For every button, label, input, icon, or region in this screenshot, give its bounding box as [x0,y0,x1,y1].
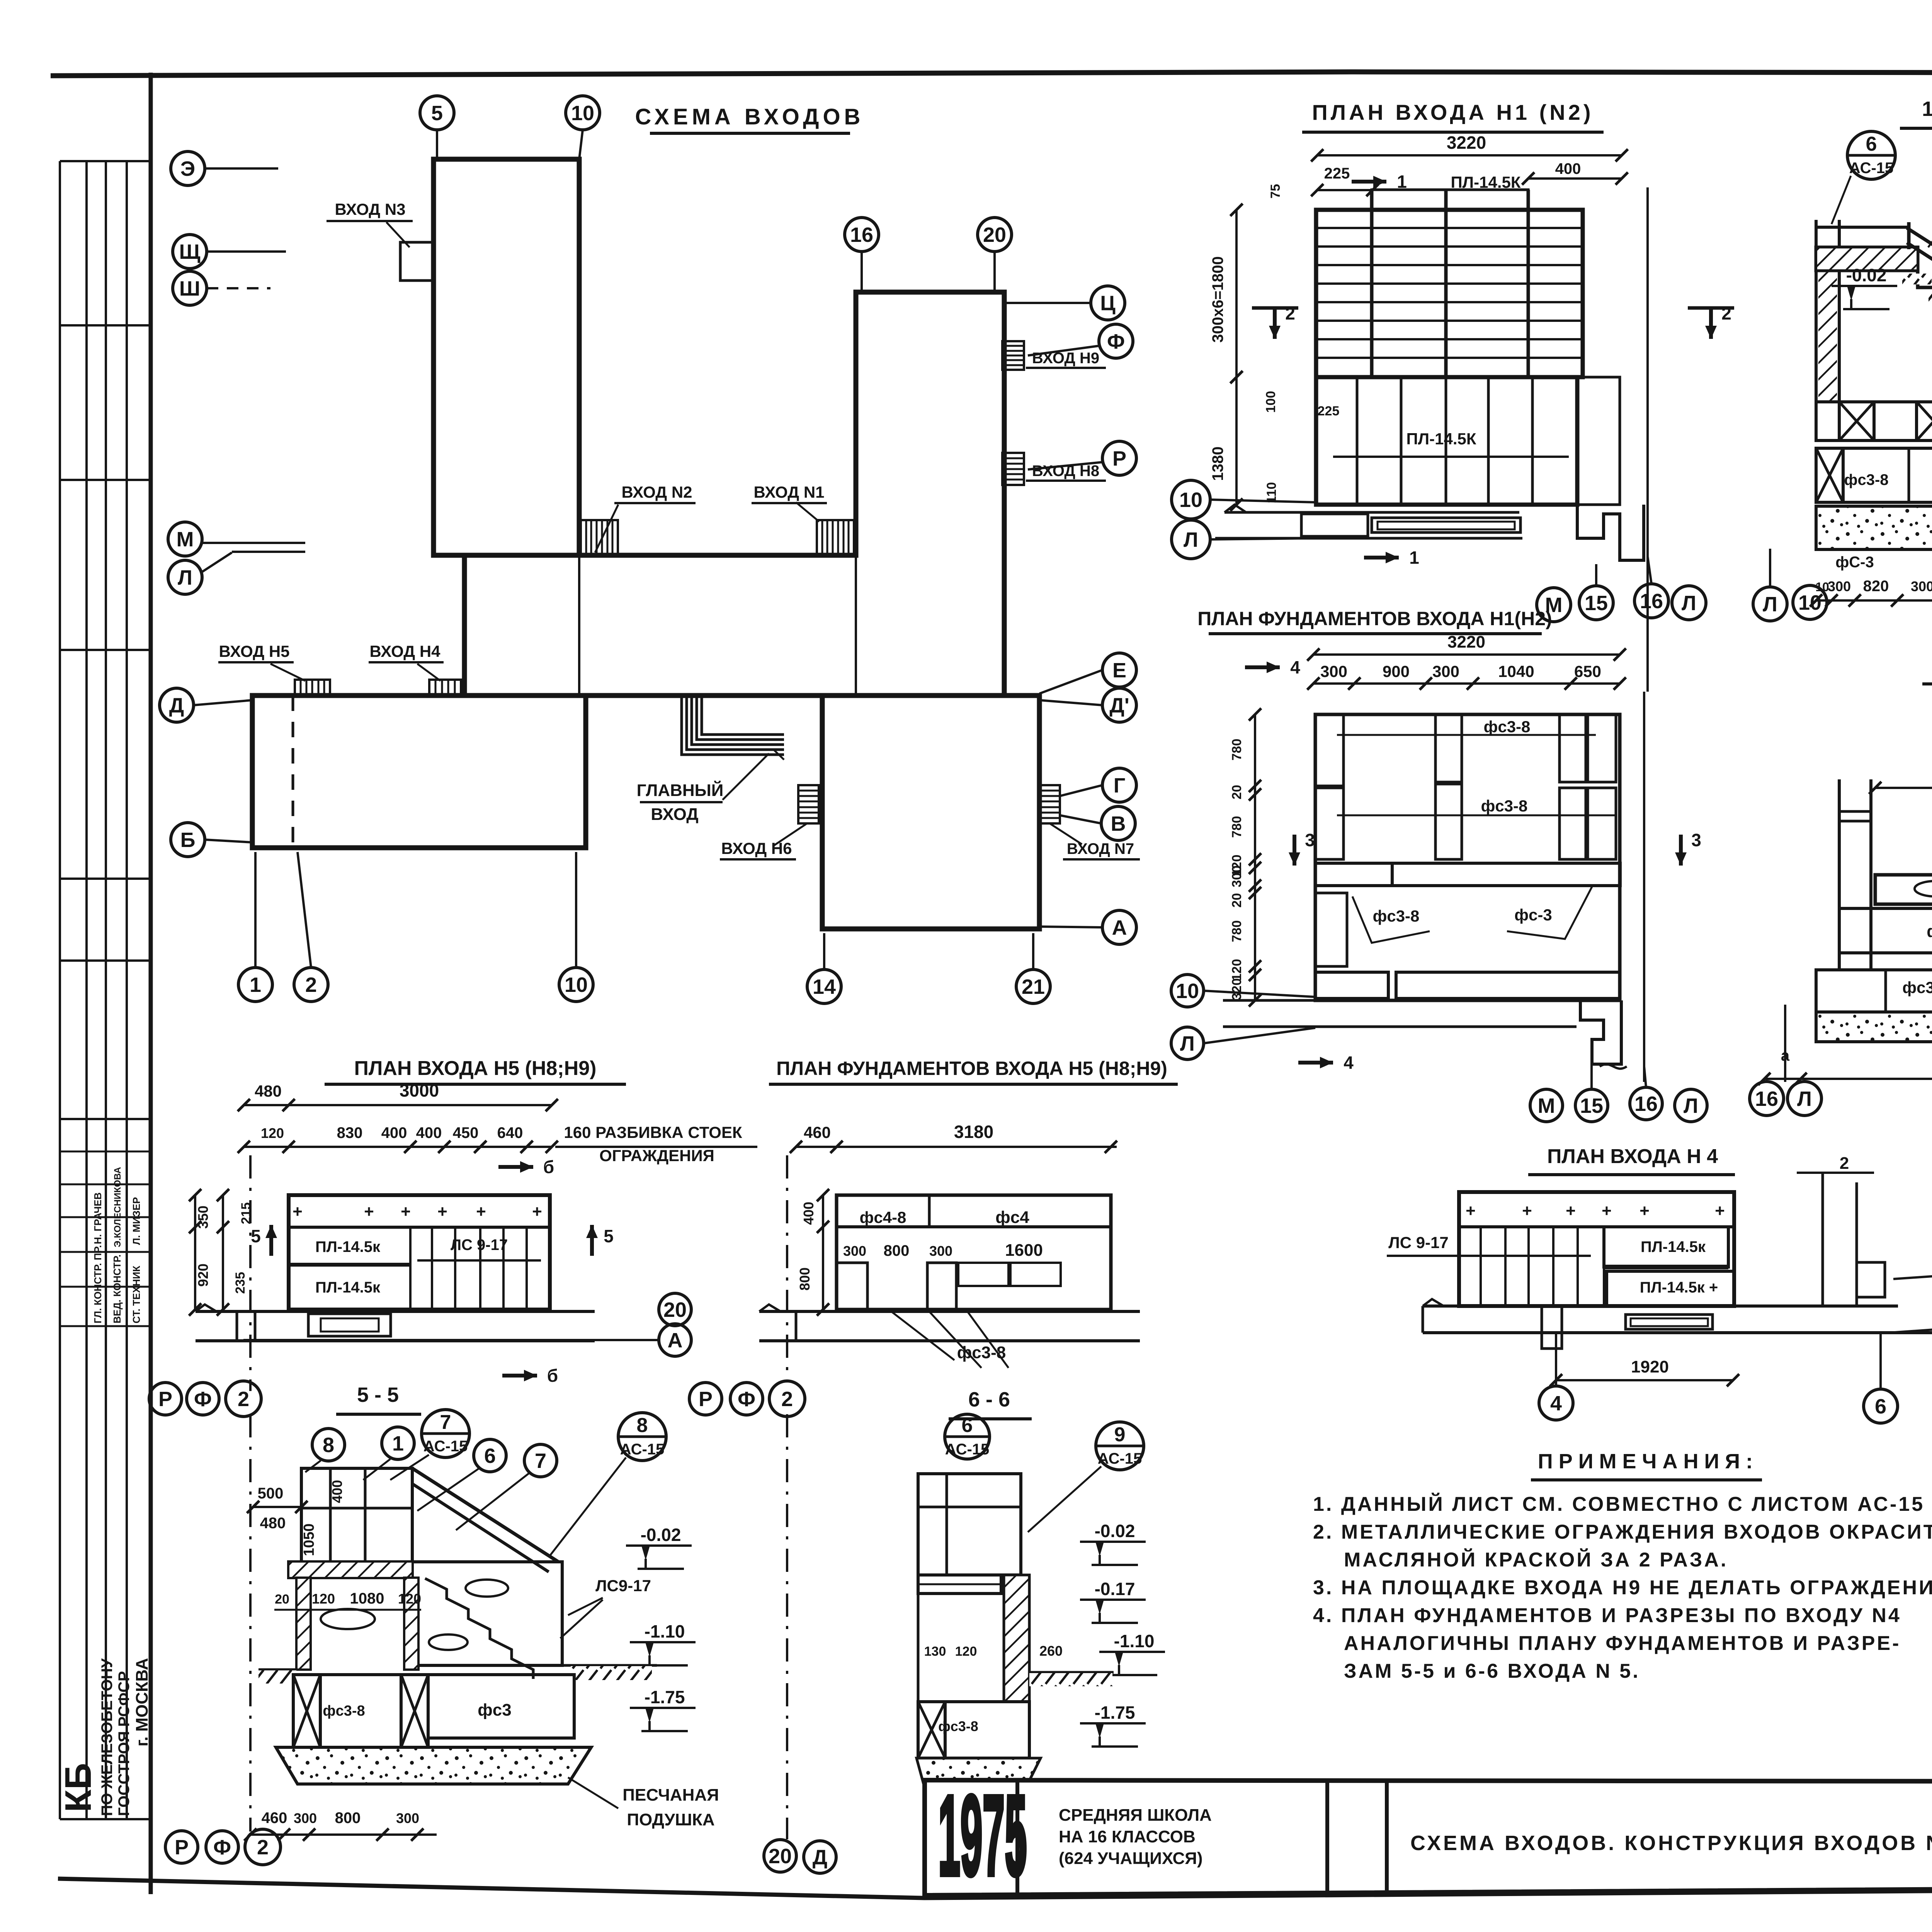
svg-text:Р: Р [175,1836,189,1859]
svg-text:ГЛ. КОНСТР. ПР.: ГЛ. КОНСТР. ПР. [92,1245,104,1323]
svg-text:4: 4 [1550,1392,1562,1415]
svg-text:+: + [1639,1201,1650,1220]
block ФС3 3-3 [1839,908,1932,953]
svg-text:400: 400 [1555,160,1581,177]
foundation bottom band [1315,972,1388,998]
sheet frame left border (inner) [149,73,153,1894]
svg-text:+: + [1566,1201,1576,1220]
svg-text:Б: Б [180,828,196,852]
svg-text:640: 640 [497,1124,523,1141]
svg-text:20: 20 [663,1298,687,1321]
svg-text:АС-15: АС-15 [423,1438,468,1455]
svg-text:ВХОД N3: ВХОД N3 [335,200,405,218]
svg-text:+: + [1466,1201,1476,1220]
svg-text:+: + [364,1202,374,1221]
svg-text:130: 130 [924,1644,946,1659]
foundation left dim chain [1254,714,1256,1000]
svg-text:Г: Г [1114,774,1126,797]
svg-text:160 РАЗБИВКА СТОЕК: 160 РАЗБИВКА СТОЕК [564,1123,742,1141]
svg-text:Л: Л [1763,593,1777,616]
sand pad 1-1 [1816,506,1932,549]
svg-text:120: 120 [261,1125,284,1141]
svg-text:г. МОСКВА: г. МОСКВА [133,1658,151,1747]
section 3-3 left wall [1838,779,1841,970]
callouts 6/АС-15 and 7/АС-15 [1847,131,1895,179]
5-5 foundation [293,1675,428,1747]
circles 20 Д bottom [764,1840,796,1872]
svg-text:4. ПЛАН ФУНДАМЕНТОВ И РАЗР: 4. ПЛАН ФУНДАМЕНТОВ И РАЗРЕЗЫ ПО ВХОДУ N… [1313,1604,1901,1627]
key plan axis circles bottom [238,968,272,1002]
svg-text:Л: Л [1682,592,1696,615]
svg-text:3000: 3000 [400,1080,439,1100]
svg-text:фс3-8: фс3-8 [1481,797,1528,815]
svg-text:120: 120 [312,1591,335,1607]
svg-text:1380: 1380 [1209,447,1226,481]
svg-text:АС-15: АС-15 [1849,160,1894,177]
svg-text:ОГРАЖДЕНИЯ: ОГРАЖДЕНИЯ [599,1146,714,1165]
circles 4 and 6 below N4 [1539,1386,1573,1420]
svg-text:+: + [1522,1201,1532,1220]
svg-text:Н. ГРАЧЕВ: Н. ГРАЧЕВ [92,1192,104,1244]
cell 1975 logo [1015,1780,1019,1893]
svg-text:920: 920 [195,1264,211,1287]
svg-text:ГЛАВНЫЙ: ГЛАВНЫЙ [637,780,724,800]
svg-text:ВХОД Н5: ВХОД Н5 [219,642,289,660]
key plan building outline [252,159,1039,929]
callout 6/АС-15 and 9/АС-15 [945,1414,990,1459]
svg-text:СХЕМА ВХОДОВ: СХЕМА ВХОДОВ [635,104,864,129]
svg-text:фс3: фс3 [1927,922,1932,941]
svg-text:20: 20 [983,223,1006,247]
svg-text:фс3-8: фс3-8 [1844,471,1888,488]
svg-text:ЛС 9-17: ЛС 9-17 [451,1236,508,1253]
svg-text:фс3: фс3 [478,1701,511,1719]
svg-text:ПЛАН ВХОДА Н 4: ПЛАН ВХОДА Н 4 [1547,1145,1718,1168]
found N5 body [837,1195,1111,1310]
section 1-1 left wall [1815,220,1818,402]
svg-text:300: 300 [1320,662,1347,680]
svg-text:120: 120 [398,1591,421,1607]
key plan axis circles top [420,96,454,130]
svg-text:фс4-8: фс4-8 [860,1208,906,1226]
svg-text:фС-3: фС-3 [1835,554,1874,571]
svg-text:3220: 3220 [1447,133,1486,153]
svg-text:3220: 3220 [1447,633,1485,651]
svg-text:Р: Р [158,1388,172,1411]
svg-text:120: 120 [1230,959,1244,981]
svg-text:780: 780 [1230,739,1244,761]
svg-text:480: 480 [260,1515,286,1532]
svg-text:+: + [1602,1201,1612,1220]
svg-text:6: 6 [1875,1395,1886,1418]
svg-text:ПЛАН ФУНДАМЕНТОВ ВХОДА Н5 (Н8: ПЛАН ФУНДАМЕНТОВ ВХОДА Н5 (Н8;Н9) [776,1058,1167,1079]
svg-text:800: 800 [335,1810,361,1827]
svg-text:300: 300 [1828,578,1851,594]
svg-text:СРЕДНЯЯ ШКОЛА: СРЕДНЯЯ ШКОЛА [1059,1806,1212,1825]
svg-text:фс3-8: фс3-8 [938,1718,978,1734]
5-5 ground hatch [259,1668,296,1671]
svg-text:1600: 1600 [1005,1241,1043,1260]
svg-text:Л: Л [1184,528,1198,551]
svg-text:225: 225 [1318,404,1340,418]
svg-text:П Р И М Е Ч А Н И Я :: П Р И М Е Ч А Н И Я : [1538,1450,1753,1473]
section 1-1 landing [1816,247,1918,270]
svg-text:(624 УЧАЩИХСЯ): (624 УЧАЩИХСЯ) [1059,1849,1203,1868]
entry door ВХОД N1 [817,520,854,555]
svg-text:780: 780 [1230,816,1244,838]
E step shape [1857,1262,1885,1297]
svg-text:450: 450 [453,1124,479,1141]
svg-text:СТ. ТЕХНИК: СТ. ТЕХНИК [131,1265,142,1323]
plan N1 porch bottom [1225,511,1519,514]
plan N1 upper slab [1372,190,1528,377]
svg-text:ВХОД N1: ВХОД N1 [753,483,824,501]
svg-text:7: 7 [535,1449,546,1473]
svg-text:фс4: фс4 [995,1208,1029,1227]
foundation lower band [1315,893,1347,966]
svg-text:1: 1 [1409,548,1419,568]
svg-text:ВХОД N2: ВХОД N2 [621,483,692,501]
svg-text:фс3: фс3 [1902,978,1932,997]
foundation plan outline [1315,714,1620,1000]
svg-text:15: 15 [1580,1094,1603,1117]
svg-text:2: 2 [1721,303,1731,323]
svg-text:830: 830 [337,1124,363,1141]
circles Р Ф 2 left [149,1383,182,1415]
svg-text:ВХОД Н6: ВХОД Н6 [721,839,792,857]
svg-text:300: 300 [929,1243,952,1259]
svg-text:3180: 3180 [954,1122,993,1142]
svg-text:2: 2 [1285,303,1295,323]
lower blocks 3-3 [1816,970,1932,1012]
svg-text:Ц: Ц [1100,292,1116,315]
entry door ВХОД N2 [581,520,618,555]
foundation middle band [1315,863,1620,886]
svg-text:-1.10: -1.10 [645,1621,685,1641]
svg-text:16: 16 [1640,590,1663,613]
svg-text:Ш: Ш [179,277,200,300]
svg-text:1920: 1920 [1631,1357,1669,1376]
cell school name [1325,1781,1329,1891]
svg-text:300: 300 [396,1810,419,1826]
svg-text:Д': Д' [1109,694,1129,717]
svg-text:7: 7 [440,1411,451,1434]
left stamp column [59,161,61,1819]
section line 2 on N4 [1821,1173,1824,1306]
svg-text:260: 260 [1039,1643,1063,1659]
entry door ВХОД N7 [1039,785,1060,823]
svg-text:Л: Л [1180,1032,1195,1055]
svg-text:+: + [401,1202,411,1221]
svg-text:2: 2 [781,1388,793,1411]
svg-text:120: 120 [955,1644,977,1659]
entry door ВХОД Н8 [1002,453,1024,485]
axis circles below plan N1 [1172,480,1210,519]
plan N4 body [1459,1192,1734,1306]
svg-text:16: 16 [1634,1092,1658,1116]
svg-text:100: 100 [1264,391,1278,413]
svg-text:-0.02: -0.02 [1846,265,1887,285]
svg-text:АНАЛОГИЧНЫ ПЛАНУ ФУНДАМЕН: АНАЛОГИЧНЫ ПЛАНУ ФУНДАМЕНТОВ И РАЗРЕ- [1344,1632,1901,1655]
svg-text:Л: Л [1684,1094,1698,1117]
svg-text:650: 650 [1574,662,1601,680]
svg-text:Л: Л [1797,1087,1812,1111]
svg-text:НА 16 КЛАССОВ: НА 16 КЛАССОВ [1059,1827,1196,1846]
svg-text:АС-15: АС-15 [620,1441,665,1458]
foundation vertical blocks row1 [1315,714,1344,786]
svg-text:10: 10 [1815,580,1829,594]
svg-text:900: 900 [1383,662,1410,680]
svg-text:800: 800 [797,1267,813,1291]
svg-text:+: + [293,1202,303,1221]
svg-text:+: + [476,1202,486,1221]
5-5 walls below platform [296,1578,311,1670]
plan N1 left dims [1235,210,1238,377]
svg-text:Д: Д [169,694,184,717]
svg-text:ПЛАН ВХОДА Н1 (N2): ПЛАН ВХОДА Н1 (N2) [1312,100,1594,124]
plan N4 porch [1626,1315,1713,1329]
svg-text:2: 2 [257,1836,269,1859]
svg-text:16: 16 [1755,1087,1778,1111]
plan N4 door jamb [1542,1306,1562,1349]
svg-text:16: 16 [850,223,873,247]
svg-text:ПЕСЧАНАЯ: ПЕСЧАНАЯ [622,1786,719,1804]
svg-text:8: 8 [323,1434,334,1457]
svg-text:225: 225 [1324,165,1350,182]
svg-text:ПЛ-14.5к: ПЛ-14.5к [315,1279,381,1296]
title block [925,1780,1932,1895]
section 1-1 foundation blocks [1816,402,1932,440]
svg-text:14: 14 [813,975,836,998]
svg-text:300: 300 [843,1243,866,1259]
svg-text:+: + [532,1202,542,1221]
section 1-1 steps [1918,270,1932,389]
svg-text:75: 75 [1268,184,1283,199]
svg-text:4: 4 [1344,1053,1354,1073]
svg-text:1: 1 [250,973,261,997]
svg-text:2. МЕТАЛЛИЧЕСКИЕ ОГРАЖДЕНИЯ В: 2. МЕТАЛЛИЧЕСКИЕ ОГРАЖДЕНИЯ ВХОДОВ ОКРАС… [1313,1521,1932,1543]
svg-text:480: 480 [255,1082,282,1100]
svg-text:+: + [437,1202,447,1221]
svg-text:Л. МИЗЕР: Л. МИЗЕР [131,1197,142,1245]
svg-text:ЛС9-17: ЛС9-17 [595,1577,651,1595]
axis circles foundation plan [1171,975,1204,1007]
axis 2 line 5-5 [249,1414,252,1832]
svg-text:300x6=1800: 300x6=1800 [1209,256,1226,343]
svg-text:Е: Е [1112,659,1126,682]
svg-text:6: 6 [484,1444,496,1468]
svg-text:10: 10 [1798,591,1821,614]
svg-text:300: 300 [1911,578,1932,594]
svg-text:20: 20 [1230,893,1244,908]
svg-text:820: 820 [1863,578,1889,595]
svg-text:Ф: Ф [1107,330,1125,353]
circles Р Ф 2 bottom [165,1831,198,1863]
svg-text:20: 20 [769,1845,792,1868]
svg-text:10: 10 [1179,488,1202,512]
slab 3-3 [1875,875,1932,904]
svg-text:ПЛ-14.5к +: ПЛ-14.5к + [1640,1279,1718,1296]
svg-text:3: 3 [1691,830,1701,850]
svg-text:500: 500 [258,1485,284,1502]
svg-text:Д: Д [813,1846,827,1869]
svg-text:ПЛ-14.5К: ПЛ-14.5К [1406,430,1476,448]
main entrance ramp ГЛАВНЫЙ ВХОД [682,696,784,755]
6-6 sand pad [917,1758,1041,1784]
svg-text:-1.10: -1.10 [1114,1631,1155,1651]
svg-text:235: 235 [233,1272,248,1294]
plan N5 body [289,1195,550,1310]
svg-text:400: 400 [801,1202,816,1225]
svg-text:5: 5 [251,1226,261,1246]
6-6 railing [918,1474,1021,1575]
svg-text:5 - 5: 5 - 5 [357,1383,399,1406]
entry door ВХОД Н5 [295,680,330,696]
svg-text:2: 2 [1840,1154,1849,1173]
5-5 sand pad [276,1747,591,1784]
svg-text:фс3-8: фс3-8 [1373,907,1420,925]
svg-text:ВХОД Н9: ВХОД Н9 [1032,350,1099,367]
svg-text:460: 460 [804,1123,831,1141]
svg-text:20: 20 [1230,785,1244,799]
svg-text:ВХОД Н4: ВХОД Н4 [369,642,440,660]
svg-text:400: 400 [416,1124,442,1141]
svg-text:А: А [1112,916,1127,939]
svg-text:ВХОД N7: ВХОД N7 [1067,840,1134,857]
sand pad 3-3 [1816,1012,1932,1042]
plan N1 lower platform [1316,377,1577,505]
plan N5 ground/wall [196,1310,595,1313]
svg-text:5: 5 [431,102,443,125]
svg-text:4: 4 [1290,657,1300,677]
svg-text:1975: 1975 [938,1772,1027,1899]
6-6 platform and wall [918,1575,1001,1594]
svg-text:-1.75: -1.75 [1095,1702,1135,1723]
svg-text:-0.02: -0.02 [1095,1521,1135,1541]
svg-text:-1.75: -1.75 [645,1687,685,1707]
svg-text:10: 10 [571,102,594,125]
svg-text:М: М [177,528,194,551]
svg-text:2: 2 [238,1388,249,1411]
svg-text:15: 15 [1585,592,1608,615]
svg-text:300: 300 [1432,662,1459,680]
entry door ВХОД Н6 [798,785,819,823]
svg-text:АС-15: АС-15 [945,1441,990,1458]
5-5 railing [301,1468,412,1564]
svg-text:Щ: Щ [179,240,200,264]
svg-text:-0.02: -0.02 [641,1525,681,1545]
svg-text:300: 300 [294,1810,317,1826]
5-5 stair mass [412,1562,562,1665]
svg-text:Р: Р [699,1388,713,1411]
key plan axis circles left [171,151,205,185]
svg-text:М: М [1538,1094,1555,1117]
svg-text:А: А [668,1329,683,1352]
svg-text:8: 8 [637,1414,648,1437]
svg-text:400: 400 [381,1124,407,1141]
svg-text:АС-15: АС-15 [1098,1450,1142,1467]
svg-text:6 - 6: 6 - 6 [968,1388,1010,1411]
svg-text:1040: 1040 [1498,662,1534,680]
svg-text:В: В [1111,812,1126,835]
entry door ВХОД N3 [400,242,434,281]
svg-text:320: 320 [1230,978,1244,1000]
svg-text:10: 10 [565,973,588,997]
axis 2 and А for plan N5 [249,1155,252,1391]
foundation porch lines [1223,999,1580,1002]
svg-text:Ф: Ф [738,1388,755,1411]
svg-text:3: 3 [1305,830,1315,850]
svg-text:6: 6 [962,1414,973,1437]
sheet frame bottom border [58,1879,1932,1898]
svg-text:ПЛ-14.5к: ПЛ-14.5к [1641,1238,1706,1255]
svg-text:Р: Р [1112,447,1126,470]
svg-text:780: 780 [1230,920,1244,942]
svg-text:10: 10 [1176,980,1199,1003]
svg-text:1050: 1050 [301,1524,317,1556]
svg-text:Э.КОЛЕСНИКОВА: Э.КОЛЕСНИКОВА [112,1167,123,1247]
svg-text:б: б [547,1366,558,1386]
plan N1 right wall step [1577,505,1644,560]
callout circles 8 1 7/АС-15 6 7 8/АС-15 [312,1429,345,1461]
svg-text:20: 20 [275,1592,289,1607]
found N5 ground [759,1310,1140,1313]
svg-text:5: 5 [604,1226,614,1246]
svg-text:ПЛАН ВХОДА Н5 (Н8;Н9): ПЛАН ВХОДА Н5 (Н8;Н9) [354,1057,597,1080]
svg-text:СХЕМА ВХОДОВ. КОНСТРУКЦИЯ ВХ: СХЕМА ВХОДОВ. КОНСТРУКЦИЯ ВХОДОВ N1;2;4;… [1410,1832,1932,1855]
svg-text:-0.17: -0.17 [1095,1579,1135,1599]
svg-text:Ф: Ф [194,1388,212,1411]
svg-text:3. НА ПЛОЩАДКЕ ВХОДА Н9 НЕ ДЕ: 3. НА ПЛОЩАДКЕ ВХОДА Н9 НЕ ДЕЛАТЬ ОГРАЖД… [1313,1577,1932,1599]
svg-text:300: 300 [1230,866,1244,888]
svg-text:КБ: КБ [58,1763,99,1812]
section 1-1 railing [1907,222,1911,249]
svg-text:ЛС 9-17: ЛС 9-17 [1388,1233,1449,1252]
6-6 ground hatch [1029,1671,1114,1674]
svg-text:фс-3: фс-3 [1514,906,1552,924]
svg-text:6: 6 [1866,133,1877,155]
key plan axis circles right [1091,286,1125,320]
5-5 platform slab [289,1562,412,1578]
svg-text:2: 2 [305,973,317,997]
circles 16 Л below 3-3 [1750,1082,1784,1116]
circles Р Ф 2 right [689,1383,722,1415]
section marks 2-2 on plan N1 [1252,306,1298,310]
svg-text:1. ДАННЫЙ ЛИСТ СМ. СОВМЕСТНО: 1. ДАННЫЙ ЛИСТ СМ. СОВМЕСТНО С ЛИСТОМ АС… [1313,1493,1925,1515]
svg-text:460: 460 [262,1810,287,1827]
svg-text:9: 9 [1114,1423,1126,1446]
sheet frame top border [51,72,1932,76]
svg-text:Л: Л [178,566,192,589]
entry door ВХОД Н4 [429,680,461,696]
svg-text:фс3-8: фс3-8 [323,1703,365,1719]
plan N4 wall band [1423,1304,1898,1308]
svg-text:ПОДУШКА: ПОДУШКА [627,1810,714,1829]
entry door ВХОД Н9 [1002,341,1024,370]
svg-text:1: 1 [392,1432,404,1455]
svg-text:ПЛ-14.5к: ПЛ-14.5к [315,1238,381,1255]
6-6 foundation [918,1702,1029,1758]
svg-text:1080: 1080 [350,1590,384,1607]
svg-text:ВЕД. КОНСТР.: ВЕД. КОНСТР. [111,1254,123,1323]
svg-text:Э: Э [180,157,195,180]
svg-text:ПЛАН ФУНДАМЕНТОВ ВХОДА Н1(Н2): ПЛАН ФУНДАМЕНТОВ ВХОДА Н1(Н2) [1197,608,1552,629]
svg-text:ВХОД: ВХОД [651,805,698,824]
svg-text:ГОССТРОЯ РСФСР: ГОССТРОЯ РСФСР [116,1671,133,1816]
svg-text:МАСЛЯНОЙ КРАСКОЙ ЗА 2 РАЗА.: МАСЛЯНОЙ КРАСКОЙ ЗА 2 РАЗА. [1344,1548,1728,1571]
svg-text:21: 21 [1022,975,1045,998]
svg-text:Ф: Ф [213,1836,231,1859]
